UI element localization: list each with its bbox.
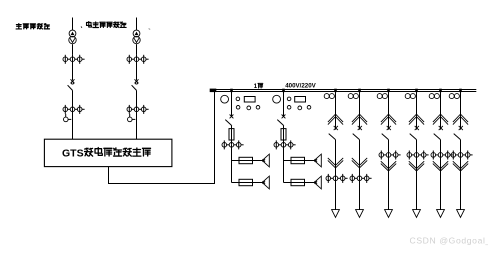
drawout contact (double chevron down) of F8 xyxy=(453,161,468,171)
breaker x of F8 xyxy=(459,126,463,130)
drawout contact (double chevron up) of F6 xyxy=(409,114,424,125)
branch 2 drawout contact triangle of P2 xyxy=(314,176,321,189)
breaker x of F7 xyxy=(439,126,443,130)
disconnect blade of F8 xyxy=(454,134,461,140)
feeder F8: drop wire xyxy=(460,92,462,130)
disconnect blade of F5 xyxy=(382,134,389,140)
metering instruments of panel P1 (voltmeter circle, lamps, meter) xyxy=(221,95,260,110)
PT tap below CT on incoming feeder 1 (main) xyxy=(64,114,72,122)
breaker x of F4 xyxy=(358,126,362,130)
svg-text:1: 1 xyxy=(254,83,258,90)
feeder P2: drop wire from bus xyxy=(283,92,285,117)
branch 1 wire of P1 xyxy=(232,160,240,162)
wire xyxy=(72,55,74,81)
disconnect blade of F6 xyxy=(410,134,417,140)
wire xyxy=(136,55,138,81)
CT cluster of P2 xyxy=(274,140,296,149)
drawout contact (double chevron down) of F3 xyxy=(328,158,343,168)
disconnect blade of F7 xyxy=(434,134,441,140)
svg-text:CSDN @Godgoal_: CSDN @Godgoal_ xyxy=(410,236,488,246)
wire xyxy=(136,90,138,139)
wire xyxy=(72,90,74,139)
disconnect blade of P1 xyxy=(225,120,232,126)
disconnect blade on incoming feeder 2 (backup) xyxy=(132,85,137,90)
CT cluster (lower) on incoming feeder 1 (main) xyxy=(63,105,85,114)
wire GTS output to busbar (L path) xyxy=(109,92,215,184)
CT cluster of F4 xyxy=(350,174,372,183)
PT tap below CT on incoming feeder 2 (backup) xyxy=(128,114,136,122)
circuit breaker on incoming feeder 2 (backup) xyxy=(135,79,139,84)
breaker x of P2 xyxy=(282,115,286,119)
wire xyxy=(72,44,74,54)
breaker x of P1 xyxy=(230,115,234,119)
branch 2 drawout contact triangle of P1 xyxy=(262,176,269,189)
drawout contact (double chevron up) of F5 xyxy=(381,114,396,125)
metering instruments of panel P2 (voltmeter circle, lamps, meter) xyxy=(273,95,311,110)
branch 2 fuse of P1 xyxy=(239,179,262,185)
drawout contact (double chevron up) of F8 xyxy=(453,114,468,125)
watermark CSDN @Godgoal_ xyxy=(410,236,488,246)
wire xyxy=(136,44,138,54)
main wire down of F3 xyxy=(335,140,337,210)
CT cluster of F7 xyxy=(431,151,453,160)
drawout contact (double chevron down) of F6 xyxy=(409,161,424,171)
main wire down of F4 xyxy=(359,140,361,210)
bus junction dots xyxy=(230,89,462,92)
CT cluster of F6 xyxy=(407,151,429,160)
label 1段 (bus section 1) xyxy=(254,83,263,90)
drawout contact (double chevron down) of F4 xyxy=(352,158,367,168)
fuse (vertical) of P1 xyxy=(229,126,234,145)
busbar section 1 (1段 400V/220V), double line xyxy=(210,89,477,93)
breaker x of F6 xyxy=(415,126,419,130)
CT cluster of F5 xyxy=(379,151,401,160)
branch 1 drawout contact triangle of P2 xyxy=(314,154,321,167)
svg-text:400V/220V: 400V/220V xyxy=(285,83,316,90)
CT cluster of P1 xyxy=(222,140,244,149)
load arrow (down) of F5 xyxy=(385,210,393,218)
disconnect blade on incoming feeder 1 (main) xyxy=(68,85,73,90)
branch 1 wire of P2 xyxy=(284,160,292,162)
wire incoming feeder 1 (main): top drop xyxy=(72,18,74,31)
disconnect blade of F3 xyxy=(329,134,336,140)
CT cluster (upper) on incoming feeder 2 (backup) xyxy=(127,55,149,64)
drawout contact (double chevron down) of F7 xyxy=(433,161,448,171)
feeder F8: CT pair below bus xyxy=(449,94,459,99)
drawout contact (double chevron up) of F7 xyxy=(433,114,448,125)
drawout contact (double chevron up) of F3 xyxy=(328,114,343,125)
CT cluster of F8 xyxy=(451,151,473,160)
feeder F7: CT pair below bus xyxy=(429,94,439,99)
load arrow (down) of F3 xyxy=(332,210,340,218)
label 主电源进线 (main supply incoming) xyxy=(16,24,49,29)
drawout contact (double chevron up) of F4 xyxy=(352,114,367,125)
feeder F7: drop wire xyxy=(440,92,442,130)
svg-text:GTS: GTS xyxy=(62,147,84,159)
drawout contact (double chevron down) of F5 xyxy=(381,161,396,171)
wire incoming feeder 2 (backup): top drop xyxy=(136,18,138,31)
breaker x of F5 xyxy=(387,126,391,130)
CT cluster (upper) on incoming feeder 1 (main) xyxy=(63,55,85,64)
GTS dual-supply fast transfer system box (GTS双电源快切系统) xyxy=(44,139,171,166)
feeder F5: drop wire xyxy=(388,92,390,130)
main wire down of F8 xyxy=(460,140,462,210)
load arrow (down) of F4 xyxy=(356,210,364,218)
CT cluster of F3 xyxy=(326,174,348,183)
transformer (PT) on incoming feeder 1 (main) xyxy=(69,30,76,44)
load arrow (down) of F6 xyxy=(413,210,421,218)
disconnect blade of F4 xyxy=(353,134,360,140)
feeder F4: drop wire xyxy=(359,92,361,130)
branch 2 fuse of P2 xyxy=(291,179,314,185)
load arrow (down) of F8 xyxy=(457,210,465,218)
load arrow (down) of F7 xyxy=(437,210,445,218)
feeder F3: drop wire xyxy=(335,92,337,130)
feeder F4: CT pair below bus xyxy=(348,94,358,99)
feeder F6: drop wire xyxy=(416,92,418,130)
feeder F3: CT pair below bus xyxy=(324,94,334,99)
wire vertical of P2 to branches xyxy=(283,145,285,183)
CT cluster (lower) on incoming feeder 2 (backup) xyxy=(127,105,149,114)
branch 2 wire of P1 xyxy=(232,182,240,184)
label 400V/220V xyxy=(285,83,316,90)
branch 2 wire of P2 xyxy=(284,182,292,184)
disconnect blade of P2 xyxy=(277,120,284,126)
feeder P1: drop wire from bus xyxy=(231,92,233,117)
circuit breaker on incoming feeder 1 (main) xyxy=(71,79,75,84)
main wire down of F7 xyxy=(440,140,442,210)
wire vertical of P1 to branches xyxy=(231,145,233,183)
branch 1 fuse of P1 xyxy=(239,157,262,163)
branch 1 fuse of P2 xyxy=(291,157,314,163)
branch 1 drawout contact triangle of P1 xyxy=(262,154,269,167)
main wire down of F6 xyxy=(416,140,418,210)
breaker x of F3 xyxy=(334,126,338,130)
feeder F6: CT pair below bus xyxy=(405,94,415,99)
main wire down of F5 xyxy=(388,140,390,210)
label 备用电源进线 (backup supply incoming) xyxy=(81,22,150,30)
transformer (PT) on incoming feeder 2 (backup) xyxy=(133,30,140,44)
fuse (vertical) of P2 xyxy=(281,126,286,145)
feeder F5: CT pair below bus xyxy=(377,94,387,99)
